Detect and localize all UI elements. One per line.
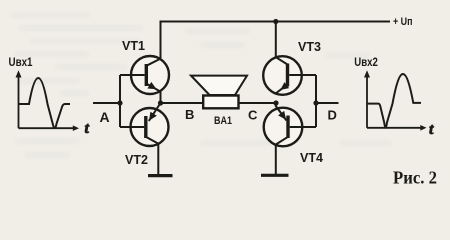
wire VT4 collector to ground [275,144,277,175]
svg-text:VT1: VT1 [122,39,145,53]
+Un supply rail [161,22,391,59]
wire speaker to emitters VT3/VT4 [239,102,277,104]
wire base tie VT1-VT2 [119,75,121,127]
svg-text:VT3: VT3 [298,40,321,54]
loudspeaker BA1 body [203,96,238,109]
node C junction dot [273,100,278,105]
transistor VT3 [263,56,316,95]
transistor VT1 [120,56,169,94]
graph Uvx1 waveform [19,78,71,128]
node: junction dot on rail [273,19,278,24]
svg-text:t: t [85,120,90,137]
wire input A [93,102,120,104]
graph Uvx2 axes [367,75,423,128]
svg-text:B: B [185,107,194,122]
wire emitters VT1/VT2 to speaker [161,92,204,104]
node A junction dot [117,100,122,105]
loudspeaker BA1 horn [191,76,247,95]
svg-text:VT4: VT4 [300,151,323,165]
svg-text:Uвх1: Uвх1 [9,55,33,69]
transistor VT2 [120,103,169,146]
graph Uvx2 waveform [367,74,421,128]
transistor VT4 [264,103,316,146]
svg-text:C: C [248,108,258,123]
svg-text:BA1: BA1 [214,115,232,127]
graph Uvx1 axes [19,75,74,129]
node D junction dot [313,100,318,105]
svg-text:VT2: VT2 [125,153,148,167]
wire VT3 collector to rail [275,22,277,58]
svg-text:Рис. 2: Рис. 2 [393,168,437,188]
svg-text:Uвх2: Uвх2 [354,55,378,69]
svg-text:t: t [429,121,434,138]
svg-text:A: A [100,109,110,125]
ground right [261,174,289,177]
wire VT2 collector to ground [157,143,159,175]
paper background [0,0,450,192]
wire base tie VT3-VT4 [315,75,317,127]
wire input D [316,102,339,104]
node B junction dot [158,100,163,105]
svg-text:+ Uп: + Uп [393,16,413,28]
ground left [148,174,173,177]
svg-text:D: D [328,108,337,123]
